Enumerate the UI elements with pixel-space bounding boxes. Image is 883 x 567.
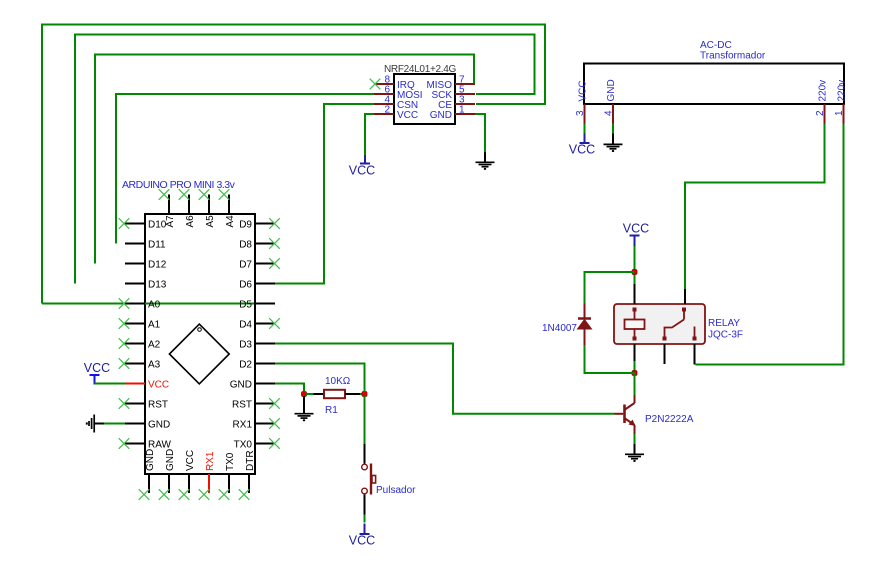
no-connect X on U1 bottom pin TX0 [219,489,230,500]
pin D6 right of U1 (stub) [255,283,275,285]
wire diode anode to junction [585,345,635,373]
wire D3 to Q1 base [275,344,615,414]
wire Q1 emitter to ground [634,434,636,444]
wire D6 to NRF CSN [275,104,377,284]
junction at relay coil bottom [632,371,637,376]
pin D10 left of U1 (stub) [125,223,145,225]
svg-text:2: 2 [815,110,826,116]
pin label GND left of U1 [148,419,170,430]
svg-text:JQC-3F: JQC-3F [708,330,743,341]
pin number 6 of U2 [384,85,390,96]
relay NO pin stub [664,344,666,364]
pin number 2 of T1 [815,110,826,116]
pin number 1 of U2 [459,105,465,116]
pin label RST left of U1 [148,399,168,410]
pin number 4 of U2 [384,95,390,106]
pin label A4 top of U1 [225,215,236,228]
pin label D9 right of U1 [239,219,252,230]
pin D11 left of U1 (stub) [125,243,145,245]
pin label D12 left of U1 [148,259,167,270]
pin 5 SCK of U2 (stub) [455,93,475,95]
svg-text:GND: GND [230,379,252,390]
pin label TX0 right of U1 [234,439,253,450]
pin VCC left of U1 (stub) [125,383,145,385]
svg-text:GND: GND [165,449,176,471]
relay coil top pin stub [634,284,636,304]
svg-text:D3: D3 [239,339,252,350]
junction at relay coil top [632,270,637,275]
pin label RX1 bottom of U1 [205,451,216,471]
relay K1 coil [625,308,645,341]
pin 7 MISO of U2 (stub) [455,83,475,85]
pin name MOSI of U2 [397,90,423,101]
svg-text:A6: A6 [185,215,196,228]
pin DTR bottom of U1 (stub) [248,474,250,493]
pin name SCK of U2 [431,90,452,101]
pin 3 CE of U2 (stub) [455,103,475,105]
pin 3 VCC of T1 (stub) [584,104,586,124]
ground below R1 left junction [295,396,314,420]
pin D4 right of U1 (stub) [255,323,275,325]
no-connect X on U2 pin 8 IRQ [370,79,381,90]
no-connect X on U1 pin RAW [119,438,130,449]
wire D11 to NRF MOSI [116,94,377,244]
svg-text:A3: A3 [148,359,161,370]
pin name IRQ of U2 [397,80,415,91]
wire junction to Q1 collector [634,373,636,395]
svg-text:A4: A4 [225,215,236,228]
svg-text:A0: A0 [148,299,161,310]
pin name VCC of U2 [397,110,418,121]
pin name MISO of U2 [426,80,452,91]
pin A1 left of U1 (stub) [125,323,145,325]
pin label DTR bottom of U1 [245,450,256,471]
pushbutton SW1 Pulsador [362,444,376,515]
svg-text:A2: A2 [148,339,161,350]
svg-text:VCC: VCC [349,164,375,178]
svg-text:P2N2222A: P2N2222A [645,414,694,425]
wire T1 pin3 to VCC [584,124,586,134]
ground at T1 GND [604,134,623,152]
pin label TX0 bottom of U1 [225,452,236,471]
label RELAY [708,318,740,329]
module U2 NRF24L01+2.4G body [394,74,455,124]
wire ground to U1 GND pin [95,423,125,425]
pin D8 right of U1 (stub) [255,243,275,245]
junction at R1 left [302,392,307,397]
pin label D2 right of U1 [239,359,252,370]
pin name GND of U2 [430,110,452,121]
svg-text:VCC: VCC [349,534,375,548]
no-connect X on U1 pin D8 right [269,238,280,249]
pin 8 IRQ of U2 (stub) [374,83,394,85]
no-connect X on U1 pin A6 [179,189,190,200]
no-connect X on U1 pin RX1 right [269,418,280,429]
no-connect X on U1 pin D7 right [269,258,280,269]
pin GND bottom of U1 (stub) [148,474,150,493]
svg-text:4: 4 [604,110,615,116]
pin RAW left of U1 (stub) [125,443,145,445]
pin D9 right of U1 (stub) [255,223,275,225]
pin name 220v of T1 [818,80,829,102]
svg-text:GND: GND [430,110,452,121]
svg-text:A7: A7 [165,215,176,228]
pin label RAW left of U1 [148,439,172,450]
pin A0 left of U1 (stub) [125,303,145,305]
svg-text:VCC: VCC [84,361,110,375]
no-connect X on U1 pin A5 [199,189,210,200]
pin GND bottom of U1 (stub) [168,474,170,493]
svg-text:RELAY: RELAY [708,318,740,329]
pin 6 MOSI of U2 (stub) [374,93,394,95]
pin RST left of U1 (stub) [125,403,145,405]
pin label GND bottom of U1 [145,449,156,471]
no-connect X on U1 pin D4 right [269,318,280,329]
pin number 4 of T1 [604,110,615,116]
svg-text:DTR: DTR [245,450,256,471]
pin name 220v of T1 [837,80,848,102]
pin 4 CSN of U2 (stub) [374,103,394,105]
no-connect X on U1 bottom pin GND [139,489,150,500]
pin label D11 left of U1 [148,239,166,250]
pin label GND bottom of U1 [165,449,176,471]
pin label VCC bottom of U1 [185,450,196,471]
pin label D5 right of U1 [239,299,252,310]
pin number 5 of U2 [459,85,465,96]
no-connect X on U1 pin A0 [119,298,130,309]
label Pulsador [376,485,416,496]
power flag VCC below pushbutton [349,524,375,548]
wire junction down to pushbutton [364,396,366,444]
svg-text:R1: R1 [325,405,338,416]
pin label D13 left of U1 [148,279,167,290]
wire junction to diode cathode [585,272,635,304]
power flag VCC at U1 VCC pin [84,361,110,385]
pin label A6 top of U1 [185,215,196,228]
pin label A0 left of U1 [148,299,161,310]
pin number 3 of U2 [459,95,465,106]
pin number 7 of U2 [459,75,465,86]
pin D2 right of U1 (stub) [255,363,275,365]
svg-text:RAW: RAW [148,439,172,450]
pin label A2 left of U1 [148,339,161,350]
pin D7 right of U1 (stub) [255,263,275,265]
pin D5 right of U1 (stub) [255,303,275,305]
pin number 2 of U2 [384,105,390,116]
no-connect X on U1 bottom pin GND [159,489,170,500]
wire T1 pin2 to relay common [685,124,825,290]
Arduino orientation diamond [169,324,229,384]
pin label A3 left of U1 [148,359,161,370]
svg-text:D12: D12 [148,259,167,270]
svg-text:GND: GND [148,419,170,430]
label 10KΩ [325,376,351,387]
svg-text:VCC: VCC [185,450,196,471]
ground at Q1 emitter [625,444,644,461]
pin RX1 right of U1 (stub) [255,423,275,425]
wire VCC to relay coil top [634,246,636,284]
label P2N2222A [645,414,694,425]
wire pushbutton to VCC [364,515,366,523]
wire through Arduino A0 to D5 pin [42,303,254,305]
svg-text:D7: D7 [239,259,252,270]
svg-text:AC-DC: AC-DC [700,40,732,51]
svg-text:RST: RST [148,399,168,410]
svg-text:D4: D4 [239,319,252,330]
relay K1 JQC-3F body [614,304,705,344]
relay K1 switch [663,308,697,341]
pin label D10 left of U1 [148,219,167,230]
pin 2 220v of T1 (stub) [824,104,826,124]
label Transformador [700,51,766,62]
ground at U2 GND [476,152,495,169]
junction at R1 right [362,392,367,397]
wire U1 D2 pin to R1 right node [275,364,365,392]
pin A7 top of U1 (stub) [168,195,170,215]
power flag VCC at T1 [569,134,595,157]
no-connect X on U1 pin A3 [119,358,130,369]
pin name CE of U2 [438,100,452,111]
svg-text:RST: RST [232,399,252,410]
svg-text:VCC: VCC [578,80,589,101]
pin label D6 right of U1 [239,279,252,290]
svg-text:1N4007: 1N4007 [542,323,577,334]
svg-text:RX1: RX1 [205,451,216,471]
label 1N4007 [542,323,577,334]
no-connect X on U1 pin RST [119,398,130,409]
svg-text:GND: GND [145,449,156,471]
svg-text:VCC: VCC [148,379,169,390]
pin A3 left of U1 (stub) [125,363,145,365]
relay NC pin stub [694,344,696,365]
pin TX0 right of U1 (stub) [255,443,275,445]
power flag VCC above relay [623,222,649,247]
transistor Q1 P2N2222A [615,395,636,434]
relay switch common pin stub [684,289,686,304]
pin label VCC left of U1 [148,379,169,390]
label R1 [325,405,338,416]
wire D12 to NRF MISO [95,55,474,264]
power flag VCC at U2 [349,155,375,178]
svg-text:GND: GND [606,79,617,101]
no-connect X on U1 pin A2 [119,338,130,349]
pin VCC bottom of U1 (stub) [188,474,190,493]
svg-text:D11: D11 [148,239,166,250]
no-connect X on U1 pin D9 right [269,218,280,229]
resistor R1 10KΩ [306,390,362,398]
Arduino U1 body [145,214,255,474]
wire U1 GND right pin to R1 node [275,384,304,392]
pin 1 GND of U2 (stub) [455,113,475,115]
wire U2 VCC pin to VCC symbol [365,114,374,155]
svg-text:3: 3 [575,110,586,116]
pin GND left of U1 (stub) [125,423,145,425]
svg-text:TX0: TX0 [225,452,236,471]
pin label D8 right of U1 [239,239,252,250]
no-connect X on U1 pin TX0 right [269,438,280,449]
svg-text:D6: D6 [239,279,252,290]
pin label RX1 right of U1 [233,419,253,430]
pin name GND of T1 [606,79,617,101]
pin number 8 of U2 [384,75,390,86]
svg-text:2: 2 [384,105,390,116]
label JQC-3F [708,330,743,341]
wire D13 to NRF SCK [75,35,535,284]
pin label A5 top of U1 [205,215,216,228]
wire T1 pin4 to ground [612,124,614,134]
svg-text:VCC: VCC [569,143,595,157]
svg-text:220v: 220v [818,80,829,102]
no-connect X on U1 pin A4 [219,189,230,200]
svg-text:TX0: TX0 [234,439,253,450]
pin D12 left of U1 (stub) [125,263,145,265]
ground at U1 GND left pin [87,415,94,433]
pin label A7 top of U1 [165,215,176,228]
svg-text:D5: D5 [239,299,252,310]
label AC-DC [700,40,732,51]
pin 2 VCC of U2 (stub) [374,113,394,115]
pin number 1 of T1 [834,110,845,116]
svg-text:220v: 220v [837,80,848,102]
pin A2 left of U1 (stub) [125,343,145,345]
pin label GND right of U1 [230,379,252,390]
pin 1 220v of T1 (stub) [843,104,845,124]
diode D1 1N4007 [578,304,592,346]
transformer T1 AC-DC body [584,64,844,105]
pin label A1 left of U1 [148,319,161,330]
pin TX0 bottom of U1 (stub) [228,474,230,493]
svg-text:NRF24L01+2.4G: NRF24L01+2.4G [384,64,457,75]
svg-text:D2: D2 [239,359,252,370]
svg-text:RX1: RX1 [233,419,253,430]
pin GND right of U1 (stub) [255,383,275,385]
pin D3 right of U1 (stub) [255,343,275,345]
svg-text:1: 1 [459,105,465,116]
pin A6 top of U1 (stub) [188,195,190,215]
svg-text:D13: D13 [148,279,167,290]
svg-text:A1: A1 [148,319,161,330]
pin label RST right of U1 [232,399,252,410]
pin A5 top of U1 (stub) [208,195,210,215]
wire T1 pin1 to relay NC contact [696,124,844,365]
pin label D4 right of U1 [239,319,252,330]
no-connect X on U1 bottom pin RX1 [199,489,210,500]
pin RST right of U1 (stub) [255,403,275,405]
pin name CSN of U2 [397,100,418,111]
svg-text:Pulsador: Pulsador [376,485,416,496]
pin D13 left of U1 (stub) [125,283,145,285]
no-connect X on U1 pin D10 [119,218,130,229]
wire U2 GND pin to ground [475,114,485,152]
wire VCC flag to U1 VCC pin [95,383,126,385]
svg-text:VCC: VCC [397,110,418,121]
relay coil bottom pin stub [634,344,636,361]
svg-text:Transformador: Transformador [700,51,766,62]
no-connect X on U1 pin RST right [269,398,280,409]
no-connect X on U1 bottom pin VCC [179,489,190,500]
label ARDUINO PRO MINI 3.3v [122,179,236,191]
wire A0/D5 to NRF CE (net D5-CE) [42,25,545,304]
pin label D3 right of U1 [239,339,252,350]
svg-text:10KΩ: 10KΩ [325,376,351,387]
svg-text:VCC: VCC [623,222,649,236]
svg-text:A5: A5 [205,215,216,228]
pin number 3 of T1 [575,110,586,116]
label NRF24L01+2.4G [384,64,457,75]
pin name VCC of T1 [578,80,589,101]
pin label D7 right of U1 [239,259,252,270]
pin A4 top of U1 (stub) [228,195,230,215]
pin RX1 bottom of U1 (stub) [208,474,210,493]
no-connect X on U1 bottom pin DTR [239,489,250,500]
svg-text:D9: D9 [239,219,252,230]
svg-text:D8: D8 [239,239,252,250]
wire relay coil bottom to collector junction [634,361,636,373]
no-connect X on U1 pin A1 [119,318,130,329]
pin 4 GND of T1 (stub) [612,104,614,124]
svg-text:1: 1 [834,110,845,116]
no-connect X on U1 pin A7 [159,189,170,200]
